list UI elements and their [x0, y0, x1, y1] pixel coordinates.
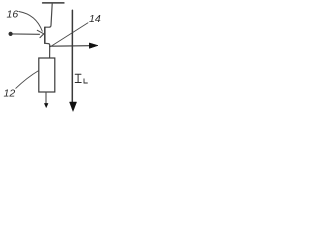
resistor bottom lead wire: [45, 92, 47, 104]
leader for 12: [16, 71, 39, 89]
transistor Q16 drain lead: [45, 4, 52, 28]
load current arrowhead: [70, 102, 77, 111]
transistor Q16 gate arrowhead: [37, 30, 44, 37]
output terminal arrow 14 head: [89, 43, 98, 49]
label I_L: [75, 74, 81, 82]
top supply rail T-bar: [43, 2, 64, 4]
transistor Q16 channel bar: [44, 27, 46, 43]
svg-text:12: 12: [4, 87, 16, 99]
transistor Q16 source lead down to node: [45, 43, 50, 58]
resistor R12: [39, 58, 55, 92]
svg-text:14: 14: [89, 13, 101, 25]
load line output conductor: [71, 10, 73, 102]
output terminal arrow 14 shaft: [50, 45, 91, 48]
leader for 16: [19, 12, 43, 32]
input node dot: [9, 32, 13, 36]
gate wire: [12, 33, 40, 35]
negative supply arrowhead: [44, 103, 48, 107]
svg-text:16: 16: [7, 8, 19, 20]
leader for 14: [51, 23, 89, 47]
